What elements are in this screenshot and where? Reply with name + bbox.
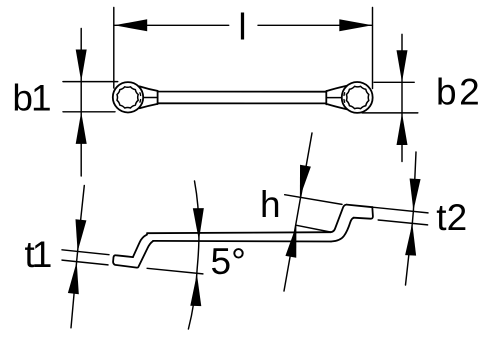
- svg-text:b2: b2: [436, 72, 482, 113]
- svg-text:t2: t2: [436, 197, 467, 238]
- svg-text:t1: t1: [25, 234, 51, 275]
- svg-text:5°: 5°: [211, 241, 246, 282]
- svg-text:l: l: [238, 6, 246, 47]
- svg-text:b1: b1: [12, 78, 50, 119]
- svg-text:h: h: [260, 184, 281, 225]
